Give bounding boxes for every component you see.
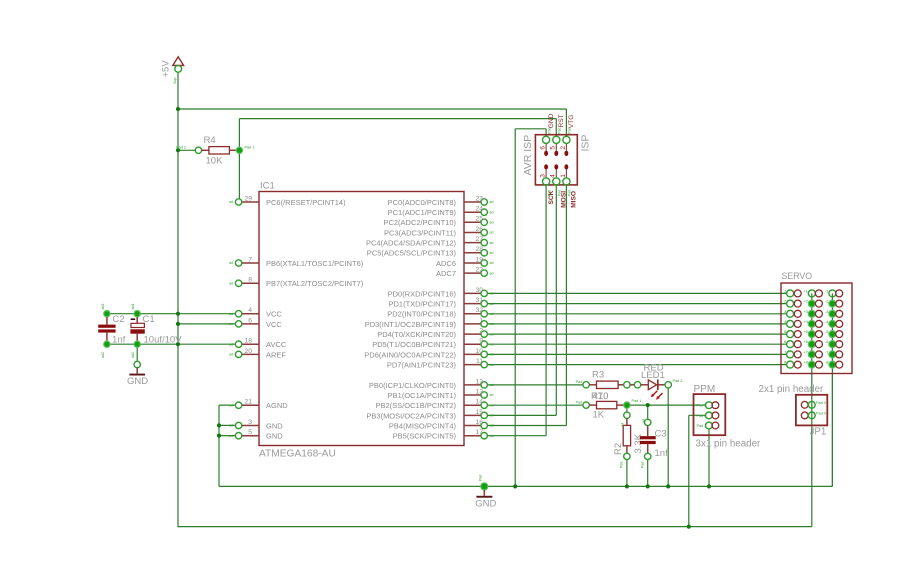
svg-text:26: 26	[475, 226, 483, 233]
svg-text:R4: R4	[204, 135, 216, 146]
SERVO row 6 signal pin	[784, 339, 801, 348]
IC1 right pin 22	[464, 267, 494, 277]
wire VCC pin6 row	[178, 323, 236, 325]
svg-text:C1: C1	[143, 314, 155, 325]
junction R2/rail	[625, 484, 629, 488]
svg-text:Pad 0: Pad 0	[816, 401, 826, 405]
svg-text:PC5(ADC5/SCL/PCINT13): PC5(ADC5/SCL/PCINT13)	[367, 249, 457, 258]
IC1 left pin 18	[229, 338, 259, 348]
ISP pad r2c3	[564, 164, 568, 169]
svg-text:R3: R3	[592, 370, 604, 381]
svg-text:ad: ad	[229, 434, 233, 438]
svg-text:ad: ad	[621, 423, 625, 427]
IC1 right pin 31	[464, 297, 494, 307]
svg-text:C3: C3	[655, 429, 667, 440]
IC1 left pin 29	[229, 195, 259, 205]
svg-text:ad: ad	[490, 200, 494, 204]
wire C1 bottom to GND symbol	[136, 347, 138, 361]
svg-text:7: 7	[248, 256, 252, 263]
svg-text:ad: ad	[229, 424, 233, 428]
svg-text:+8: +8	[803, 360, 808, 365]
IC1 right pin 30	[464, 287, 494, 297]
svg-text:8: 8	[248, 277, 252, 284]
svg-text:ad: ad	[490, 403, 494, 407]
svg-text:30: 30	[475, 287, 483, 294]
svg-text:Pad 1: Pad 1	[245, 146, 255, 150]
IC1 right pin 13	[464, 388, 494, 398]
svg-text:ad: ad	[490, 292, 494, 296]
wire LED cathode to ground rail	[667, 388, 669, 486]
wire R10 out to PPM pin1	[630, 404, 706, 406]
svg-text:PB1(OC1A/PCINT1): PB1(OC1A/PCINT1)	[388, 391, 457, 400]
IC1 right pin 19	[464, 256, 494, 266]
junction LED/rail	[666, 484, 670, 488]
svg-text:MOSI: MOSI	[561, 191, 568, 208]
IC1 right pin 16	[464, 419, 494, 429]
svg-text:ad: ad	[490, 231, 494, 235]
svg-text:16: 16	[475, 419, 483, 426]
svg-text:ad: ad	[490, 414, 494, 418]
LED LED1 RED	[630, 362, 682, 399]
svg-text:+6: +6	[803, 339, 808, 344]
resistor R10	[576, 391, 642, 420]
IC1 right pin 25	[464, 216, 494, 226]
svg-text:PD4(T0/XCK/PCINT20): PD4(T0/XCK/PCINT20)	[377, 330, 456, 339]
wire servo plus column through JP1	[811, 293, 813, 526]
svg-text:ATMEGA168-AU: ATMEGA168-AU	[259, 449, 336, 460]
svg-text:ad: ad	[490, 434, 494, 438]
svg-text:GND: GND	[475, 499, 496, 510]
SERVO row 3 plus pin	[803, 309, 822, 318]
svg-text:31: 31	[475, 297, 483, 304]
svg-text:ad: ad	[490, 261, 494, 265]
wire GND pin3	[219, 424, 236, 426]
wire PB3 MOSI to ISP	[487, 414, 556, 416]
svg-text:ad: ad	[229, 322, 233, 326]
wire R10 junction down to R2	[626, 408, 628, 412]
svg-text:Pad 2: Pad 2	[697, 414, 707, 418]
svg-text:3: 3	[248, 419, 252, 426]
SERVO row 5 plus pin	[803, 329, 822, 338]
ISP bottom pin 4	[550, 170, 562, 196]
svg-text:14: 14	[475, 399, 483, 406]
wire R4 left from +5V	[178, 149, 195, 151]
junction PPM2/+5V rail	[687, 525, 691, 529]
ISP top pin 6	[540, 127, 552, 150]
svg-text:+4: +4	[803, 319, 808, 324]
svg-text:1nf: 1nf	[112, 335, 126, 346]
svg-text:PD0(RXD/PCINT16): PD0(RXD/PCINT16)	[388, 289, 457, 298]
svg-text:Pad 0: Pad 0	[816, 412, 826, 416]
svg-text:ad2: ad2	[101, 352, 105, 358]
wire PB4 MISO to ISP	[487, 425, 566, 427]
svg-text:GND: GND	[548, 113, 555, 128]
svg-text:2x1 pin header: 2x1 pin header	[759, 384, 825, 395]
svg-text:15: 15	[475, 409, 483, 416]
svg-text:ADC6: ADC6	[436, 259, 456, 268]
ISP pad r1c3	[564, 151, 568, 156]
svg-text:AVR ISP: AVR ISP	[522, 135, 534, 176]
svg-text:AREF: AREF	[266, 350, 286, 359]
svg-text:ad: ad	[490, 424, 494, 428]
svg-text:+5V: +5V	[161, 60, 172, 78]
svg-text:PD1(TXD/PCINT17): PD1(TXD/PCINT17)	[388, 300, 456, 309]
svg-text:ad: ad	[490, 271, 494, 275]
SERVO row 7 signal pin	[784, 349, 801, 358]
+5V supply symbol	[161, 57, 184, 84]
svg-text:ad: ad	[229, 403, 233, 407]
connector SERVO 8x3 header body	[781, 283, 852, 374]
SERVO row 2 signal pin	[784, 299, 801, 308]
wire junction down to C3	[647, 405, 649, 419]
wire ground rail bottom	[219, 485, 832, 487]
wire PPM pin3 to ground rail	[708, 429, 710, 487]
svg-text:PD7(AIN1/PCINT23): PD7(AIN1/PCINT23)	[387, 361, 457, 370]
svg-text:29: 29	[244, 195, 252, 202]
wire RESET net to ISP RST	[239, 118, 556, 120]
svg-text:C2: C2	[113, 314, 125, 325]
svg-text:6: 6	[540, 146, 547, 150]
svg-text:RST: RST	[558, 114, 565, 127]
svg-text:PC6(/RESET/PCINT14): PC6(/RESET/PCINT14)	[266, 198, 346, 207]
svg-text:ad: ad	[490, 383, 494, 387]
ISP pad r1c1	[544, 151, 548, 156]
PPM pin 2	[697, 412, 719, 419]
svg-text:20: 20	[244, 348, 252, 355]
svg-text:MISO: MISO	[570, 191, 577, 208]
svg-text:1nf: 1nf	[655, 448, 669, 459]
svg-text:12: 12	[475, 378, 483, 385]
junction +5V/VTG	[176, 107, 180, 111]
wire AGND to ground	[219, 404, 236, 406]
junction PPM3/rail	[707, 484, 711, 488]
ISP top pin 2	[560, 127, 572, 150]
svg-text:PB7(XTAL2/TOSC2/PCINT7): PB7(XTAL2/TOSC2/PCINT7)	[266, 279, 364, 288]
svg-text:ad: ad	[229, 282, 233, 286]
svg-text:PC1(ADC1/PCINT9): PC1(ADC1/PCINT9)	[388, 208, 457, 217]
IC1 right pin 27	[464, 236, 494, 246]
wire C3 bottom to ground rail	[647, 460, 649, 487]
SERVO row 3 gnd pin	[825, 309, 843, 318]
svg-text:9: 9	[479, 338, 483, 345]
svg-text:1: 1	[479, 317, 483, 324]
wire PD5 IC1 to SERVO	[487, 343, 787, 345]
ISP top pin 5	[550, 127, 562, 150]
SERVO row 3 signal pin	[784, 309, 801, 318]
svg-text:PC2(ADC2/PCINT10): PC2(ADC2/PCINT10)	[383, 218, 456, 227]
connector JP1 2x1 pin header body	[796, 395, 827, 426]
svg-text:1K: 1K	[593, 410, 605, 421]
svg-text:ADC7: ADC7	[436, 269, 456, 278]
IC1 right pin 11	[464, 358, 494, 368]
svg-text:10: 10	[475, 348, 483, 355]
svg-text:ad: ad	[490, 210, 494, 214]
svg-text:ad: ad	[490, 393, 494, 397]
svg-text:ad: ad	[490, 251, 494, 255]
svg-text:AGND: AGND	[266, 401, 288, 410]
SERVO row 6 plus pin	[803, 339, 822, 348]
PPM pin 1	[697, 402, 719, 409]
junction +5V/VCC4	[176, 312, 180, 316]
svg-text:ad: ad	[490, 221, 494, 225]
svg-text:ad1: ad1	[101, 304, 105, 310]
svg-text:2: 2	[479, 328, 483, 335]
svg-text:PC3(ADC3/PCINT11): PC3(ADC3/PCINT11)	[384, 228, 456, 237]
IC1 left pin 7	[229, 256, 259, 266]
svg-text:23: 23	[475, 195, 483, 202]
svg-text:PPM: PPM	[694, 384, 716, 395]
junction GND3	[217, 423, 221, 427]
svg-text:LED1: LED1	[641, 370, 665, 381]
svg-text:PB2(SS/OC1B/PCINT2): PB2(SS/OC1B/PCINT2)	[376, 401, 457, 410]
svg-text:21: 21	[244, 399, 252, 406]
svg-text:ad: ad	[490, 353, 494, 357]
wire PB5 SCK to ISP	[487, 435, 546, 437]
PPM pin 3	[697, 422, 719, 429]
ISP pad r2c2	[554, 164, 558, 169]
junction ISPGND/rail	[513, 484, 517, 488]
svg-text:ad: ad	[229, 342, 233, 346]
IC1 right pin 2	[464, 328, 494, 338]
svg-text:13: 13	[475, 388, 483, 395]
svg-text:3: 3	[540, 174, 547, 178]
svg-text:+3: +3	[803, 309, 808, 314]
junction +5V/AVCC	[176, 342, 180, 346]
svg-text:GND: GND	[266, 421, 283, 430]
svg-text:SERVO: SERVO	[782, 271, 813, 281]
resistor R3	[576, 370, 631, 402]
IC1 left pin 21	[229, 399, 259, 409]
svg-text:ad: ad	[490, 312, 494, 316]
SERVO row 2 gnd pin	[825, 299, 843, 308]
wire PB0 to R3	[487, 384, 583, 386]
wire +5V bottom rail	[178, 526, 812, 528]
capacitor C3	[640, 419, 668, 468]
svg-text:PC4(ADC4/SDA/PCINT12): PC4(ADC4/SDA/PCINT12)	[366, 239, 457, 248]
SERVO row 1 plus pin	[803, 288, 822, 297]
junction C3/rail	[646, 484, 650, 488]
SERVO row 1 signal pin	[784, 288, 801, 297]
wire +5V top feed to ISP VTG	[178, 108, 566, 110]
SERVO row 8 gnd pin	[825, 360, 843, 369]
svg-text:VTG: VTG	[568, 115, 575, 129]
wire PD0 IC1 to SERVO	[487, 292, 787, 294]
wire +5V vertical rail x=178	[177, 72, 179, 527]
svg-text:PB5(SCK/PCINT5): PB5(SCK/PCINT5)	[393, 432, 457, 441]
svg-text:10K: 10K	[206, 156, 224, 167]
svg-text:17: 17	[475, 429, 483, 436]
svg-text:25: 25	[475, 216, 483, 223]
wire VCC pin4 row with C2 C1 tops	[107, 313, 236, 315]
junction +5V/R4	[176, 148, 180, 152]
IC1 left pin 5	[229, 429, 259, 439]
SERVO row 2 plus pin	[803, 299, 822, 308]
SERVO row 5 gnd pin	[825, 329, 843, 338]
svg-text:1: 1	[560, 174, 567, 178]
wire PB2 to R10	[487, 404, 583, 406]
wire R2 bottom to ground rail	[626, 460, 628, 487]
svg-text:Pad: Pad	[641, 462, 645, 468]
wire PD7 IC1 to SERVO	[487, 364, 787, 366]
wire AVCC row with C2 C1 bottoms	[107, 343, 236, 345]
IC1 right pin 10	[464, 348, 494, 358]
svg-text:10uf/10V: 10uf/10V	[144, 335, 183, 346]
IC1 right pin 24	[464, 206, 494, 216]
IC1 right pin 17	[464, 429, 494, 439]
IC1 right pin 32	[464, 307, 494, 317]
svg-text:ad: ad	[490, 363, 494, 367]
SERVO row 1 gnd pin	[825, 288, 843, 297]
IC1 right pin 28	[464, 246, 494, 256]
IC1 right pin 15	[464, 409, 494, 419]
resistor R2	[613, 412, 644, 468]
wire PD2 IC1 to SERVO	[487, 313, 787, 315]
svg-text:ad: ad	[490, 332, 494, 336]
svg-text:2: 2	[560, 146, 567, 150]
IC1 left pin 8	[229, 277, 259, 287]
svg-text:PD3(INT1/OC2B/PCINT19): PD3(INT1/OC2B/PCINT19)	[365, 320, 457, 329]
IC1 right pin 23	[464, 195, 494, 205]
svg-text:R10: R10	[591, 391, 608, 402]
svg-text:PB3(MOSI/OC2A/PCINT3): PB3(MOSI/OC2A/PCINT3)	[366, 411, 456, 420]
resistor R4	[176, 135, 254, 167]
ground symbol center	[475, 475, 496, 510]
svg-text:5: 5	[248, 429, 252, 436]
IC1 left pin 4	[229, 307, 259, 317]
svg-text:ad1: ad1	[131, 304, 135, 310]
svg-text:28: 28	[475, 246, 483, 253]
svg-text:GND: GND	[266, 432, 283, 441]
svg-text:SCK: SCK	[548, 190, 555, 204]
IC1 left pin 6	[229, 317, 259, 327]
svg-text:ad: ad	[642, 419, 646, 423]
svg-text:Pad 1: Pad 1	[632, 399, 642, 403]
wire RESET vertical to pin 29	[238, 119, 240, 199]
svg-text:+7: +7	[803, 349, 808, 354]
svg-text:11: 11	[476, 358, 483, 365]
SERVO row 4 gnd pin	[825, 319, 843, 328]
svg-text:PD6(AIN0/OC0A/PCINT22): PD6(AIN0/OC0A/PCINT22)	[364, 350, 456, 359]
JP1 pin 1	[801, 401, 826, 408]
capacitor C2	[98, 304, 125, 359]
svg-text:IC1: IC1	[260, 181, 275, 192]
svg-text:6: 6	[248, 317, 252, 324]
svg-text:PB0(ICP1/CLKO/PCINT0): PB0(ICP1/CLKO/PCINT0)	[369, 381, 457, 390]
junction R10/C3	[646, 403, 650, 407]
svg-text:+2: +2	[803, 299, 808, 304]
svg-text:VCC: VCC	[266, 320, 282, 329]
svg-text:+1: +1	[803, 288, 808, 293]
svg-text:PC0(ADC0/PCINT8): PC0(ADC0/PCINT8)	[388, 198, 457, 207]
svg-text:Pad 2: Pad 2	[673, 379, 683, 383]
wire PD1 IC1 to SERVO	[487, 303, 787, 305]
svg-text:PD2(INT0/PCINT18): PD2(INT0/PCINT18)	[387, 310, 456, 319]
svg-text:22: 22	[475, 267, 483, 274]
IC1 left pin 3	[229, 419, 259, 429]
svg-text:GND: GND	[127, 376, 148, 387]
svg-text:VCC: VCC	[266, 310, 282, 319]
SERVO row 4 signal pin	[784, 319, 801, 328]
IC1 left pin 20	[229, 348, 259, 358]
svg-text:32: 32	[475, 307, 483, 314]
JP1 pin 2	[801, 412, 826, 419]
svg-text:Pad: Pad	[576, 400, 582, 404]
SERVO row 7 gnd pin	[825, 349, 843, 358]
wire GND pin5	[219, 435, 236, 437]
svg-text:Pad: Pad	[576, 380, 582, 384]
wire ISP GND to ground rail	[545, 129, 547, 137]
wire PPM pin2 to +5V rail	[689, 414, 706, 416]
SERVO row 8 signal pin	[784, 360, 801, 369]
SERVO row 7 plus pin	[803, 349, 822, 358]
svg-text:Pad: Pad	[479, 475, 483, 481]
svg-text:4: 4	[550, 174, 557, 178]
svg-text:3x1 pin header: 3x1 pin header	[696, 439, 762, 450]
svg-text:Pad 3: Pad 3	[697, 404, 707, 408]
ground symbol left under C1	[127, 361, 148, 387]
IC1 right pin 14	[464, 399, 494, 409]
svg-text:ad: ad	[229, 353, 233, 357]
svg-text:PB6(XTAL1/TOSC1/PCINT6): PB6(XTAL1/TOSC1/PCINT6)	[266, 259, 364, 268]
ISP bottom pin 1	[560, 170, 572, 196]
svg-text:PB4(MISO/PCINT4): PB4(MISO/PCINT4)	[389, 421, 457, 430]
IC1 right pin 26	[464, 226, 494, 236]
IC1 right pin 9	[464, 338, 494, 348]
svg-text:ISP: ISP	[580, 135, 592, 152]
svg-text:PD5(T1/OC0B/PCINT21): PD5(T1/OC0B/PCINT21)	[372, 340, 456, 349]
wire servo gnd column	[831, 293, 833, 486]
ISP pad r2c1	[544, 164, 548, 169]
svg-text:5: 5	[550, 146, 557, 150]
svg-text:ad: ad	[490, 241, 494, 245]
svg-text:ad: ad	[490, 342, 494, 346]
svg-text:19: 19	[475, 256, 483, 263]
connector PPM 3x1 pin header body	[694, 394, 726, 435]
SERVO row 8 plus pin	[803, 360, 822, 369]
junction GND5	[217, 434, 221, 438]
junction +5V/VCC6	[176, 322, 180, 326]
svg-text:ad: ad	[490, 302, 494, 306]
svg-text:18: 18	[244, 338, 252, 345]
svg-text:Sup: Sup	[173, 78, 177, 84]
IC1 right pin 1	[464, 317, 494, 327]
svg-text:+5: +5	[803, 329, 808, 334]
wire PD3 IC1 to SERVO	[487, 323, 787, 325]
svg-text:Pad: Pad	[620, 462, 624, 468]
svg-text:27: 27	[475, 236, 483, 243]
svg-text:AVCC: AVCC	[266, 340, 287, 349]
svg-text:ad: ad	[490, 322, 494, 326]
svg-text:ad: ad	[229, 261, 233, 265]
svg-text:ad: ad	[229, 312, 233, 316]
ISP bottom pin 3	[540, 170, 552, 196]
SERVO row 4 plus pin	[803, 319, 822, 328]
svg-text:4: 4	[248, 307, 252, 314]
svg-text:JP1: JP1	[810, 426, 827, 437]
op-amp U1 IC1 ATMEGA168-AU body	[259, 192, 464, 446]
capacitor C1 polarized	[130, 304, 182, 359]
svg-text:Pad 1: Pad 1	[697, 424, 707, 428]
wire PD4 IC1 to SERVO	[487, 333, 787, 335]
svg-text:ad: ad	[229, 200, 233, 204]
IC1 right pin 12	[464, 378, 494, 388]
SERVO row 5 signal pin	[784, 329, 801, 338]
ISP pad r1c2	[554, 151, 558, 156]
wire PD6 IC1 to SERVO	[487, 353, 787, 355]
svg-text:ad2: ad2	[131, 352, 135, 358]
svg-text:Pad 2: Pad 2	[176, 146, 186, 150]
svg-text:24: 24	[475, 206, 483, 213]
